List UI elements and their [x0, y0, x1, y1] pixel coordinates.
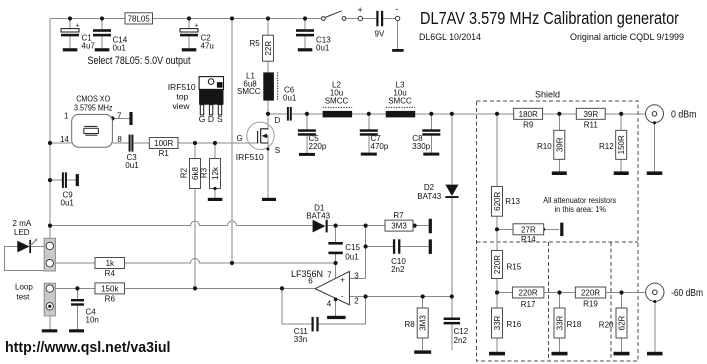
wire: [101, 19, 103, 49]
wire: [335, 300, 337, 316]
wire: [349, 226, 365, 279]
IRF510 package top view: [168, 77, 224, 124]
svg-text:IRF510: IRF510: [236, 152, 264, 162]
wire: [5, 247, 45, 271]
ground: [182, 48, 197, 51]
svg-text:S: S: [217, 114, 223, 124]
ground: [614, 352, 630, 356]
svg-text:DL7AV 3.579 MHz Calibration ge: DL7AV 3.579 MHz Calibration generator: [420, 8, 679, 28]
ground: [327, 316, 346, 319]
resistor R18: [554, 308, 582, 338]
svg-text:180R: 180R: [519, 110, 538, 119]
wire: [497, 292, 645, 294]
connector K2 (Loop test): [15, 283, 55, 316]
svg-text:DL6GL 10/2014: DL6GL 10/2014: [419, 32, 481, 42]
capacitor C12: [444, 318, 469, 345]
capacitor C8: [412, 129, 440, 151]
svg-text:3M3: 3M3: [419, 315, 428, 331]
svg-text:-60 dBm: -60 dBm: [671, 288, 703, 299]
wire: [430, 114, 432, 153]
svg-text:+: +: [76, 22, 80, 29]
junction dot: [364, 244, 368, 248]
wire: [267, 114, 269, 198]
svg-text:Original article CQDL 9/1999: Original article CQDL 9/1999: [570, 32, 684, 42]
capacitor C1 (electrolytic): [61, 22, 95, 50]
resistor R12: [599, 130, 627, 159]
svg-text:100R: 100R: [154, 139, 173, 148]
svg-text:2n2: 2n2: [454, 336, 468, 345]
svg-text:470p: 470p: [371, 142, 389, 151]
wire: [497, 228, 559, 230]
wire: [422, 297, 424, 351]
junction dot: [450, 112, 454, 116]
wire: [267, 19, 269, 114]
resistor R7: [385, 220, 413, 231]
transistor Q1 IRF510: [236, 116, 281, 162]
resistor R2: [190, 159, 201, 189]
junction dot: [48, 141, 52, 145]
resistor R13: [492, 187, 521, 217]
junction dot: [280, 286, 284, 290]
svg-text:R16: R16: [507, 320, 522, 329]
svg-text:D: D: [208, 114, 214, 124]
capacitor C13: [296, 29, 331, 52]
battery 9V: [358, 4, 400, 38]
shield enclosure (dashed): [477, 90, 638, 362]
wire: [451, 114, 453, 351]
capacitor C10: [391, 239, 406, 274]
ground: [361, 153, 377, 156]
wire: [349, 296, 451, 298]
svg-text:R17: R17: [521, 300, 536, 309]
svg-text:R10: R10: [537, 142, 552, 151]
inductor L2: [323, 81, 353, 118]
svg-text:R2: R2: [180, 167, 189, 178]
svg-text:-: -: [395, 4, 398, 14]
wire: [49, 310, 51, 329]
svg-text:220R: 220R: [581, 289, 600, 298]
svg-text:IRF510: IRF510: [168, 82, 196, 92]
svg-text:39R: 39R: [583, 110, 598, 119]
svg-text:LF356N: LF356N: [291, 269, 323, 279]
svg-text:Loop: Loop: [15, 283, 33, 292]
capacitor C7: [360, 129, 389, 151]
ground: [262, 198, 276, 201]
wire: [50, 142, 72, 144]
resistor R17: [512, 287, 544, 309]
wire: [620, 114, 622, 172]
svg-text:2 mA: 2 mA: [13, 219, 32, 228]
LED D3 2mA: [13, 219, 38, 253]
svg-text:R5: R5: [250, 39, 261, 48]
resistor R3: [210, 159, 221, 189]
wire: [368, 114, 370, 153]
wire: [654, 123, 656, 171]
wire: [383, 18, 395, 20]
wire: [397, 21, 399, 49]
resistor R11: [576, 108, 605, 129]
svg-text:R15: R15: [507, 263, 522, 272]
wire: [55, 259, 335, 264]
svg-text:R4: R4: [105, 269, 116, 278]
svg-text:R14: R14: [521, 235, 536, 244]
junction dot: [230, 16, 234, 20]
ground: [298, 48, 313, 51]
ground: [614, 171, 629, 175]
svg-text:BAT43: BAT43: [306, 212, 330, 221]
svg-text:62R: 62R: [618, 315, 627, 330]
svg-text:22R: 22R: [264, 41, 273, 56]
svg-text:78L05: 78L05: [128, 14, 151, 23]
svg-text:R3: R3: [200, 167, 209, 178]
capacitor C11: [294, 317, 319, 344]
wire: [31, 246, 44, 248]
wire: [49, 19, 51, 239]
junction dot: [75, 286, 79, 290]
svg-text:R19: R19: [583, 300, 598, 309]
svg-text:test: test: [17, 293, 31, 302]
junction dot: [619, 290, 623, 294]
svg-text:620R: 620R: [493, 192, 502, 211]
wire: [231, 19, 233, 264]
terminal stub (C9 feedthrough): [76, 174, 79, 186]
svg-text:12k: 12k: [211, 166, 220, 180]
ground: [414, 350, 431, 353]
junction dot: [305, 112, 309, 116]
wire: [335, 263, 337, 279]
junction dot: [495, 112, 499, 116]
junction dot: [429, 112, 433, 116]
oscillator X1 CMOS XO: [60, 95, 122, 148]
wire: [69, 19, 71, 49]
ground: [552, 171, 567, 175]
junction dot: [367, 112, 371, 116]
svg-text:3M3: 3M3: [391, 222, 407, 231]
wire: [304, 19, 306, 49]
wire: [558, 114, 560, 172]
resistor R6: [95, 283, 125, 304]
svg-text:1k: 1k: [106, 259, 115, 268]
svg-text:R11: R11: [584, 121, 599, 130]
resistor R8: [405, 308, 429, 338]
terminal stub (R14 feedthrough): [560, 223, 563, 237]
svg-text:33n: 33n: [294, 335, 307, 344]
svg-text:Select 78L05: 5.0V output: Select 78L05: 5.0V output: [88, 55, 191, 67]
resistor R4: [95, 258, 125, 279]
svg-text:39R: 39R: [555, 137, 564, 152]
svg-text:7: 7: [327, 271, 332, 280]
resistor R5: [250, 35, 274, 61]
capacitor C2 (electrolytic): [180, 22, 214, 50]
svg-text:SMCC: SMCC: [237, 87, 261, 96]
ground: [69, 329, 84, 332]
svg-text:D: D: [275, 116, 281, 125]
junction dot: [541, 227, 545, 231]
svg-text:150R: 150R: [617, 135, 626, 154]
junction dot: [230, 261, 234, 265]
resistor R9: [514, 108, 543, 129]
wire: [194, 143, 196, 288]
svg-text:D2: D2: [424, 183, 435, 192]
svg-text:C12: C12: [454, 327, 469, 336]
svg-text:+: +: [358, 5, 363, 15]
junction dot: [334, 224, 338, 228]
svg-text:S: S: [275, 146, 280, 155]
junction dot: [364, 294, 368, 298]
svg-text:SMCC: SMCC: [325, 97, 349, 106]
svg-text:0 dBm: 0 dBm: [671, 110, 697, 121]
svg-text:220p: 220p: [309, 142, 327, 151]
svg-text:330p: 330p: [412, 142, 430, 151]
svg-text:in this area: 1%: in this area: 1%: [555, 205, 607, 214]
junction dot: [364, 224, 368, 228]
svg-text:All attenuator resistors: All attenuator resistors: [543, 196, 616, 205]
junction dot: [266, 16, 270, 20]
ground: [423, 153, 439, 156]
wire: [214, 143, 216, 198]
junction dot: [334, 261, 338, 265]
connector J2 output -60 dBm: [646, 283, 703, 303]
ground: [489, 352, 505, 356]
wire: [76, 288, 78, 329]
svg-text:R1: R1: [159, 149, 170, 158]
wire: [112, 118, 129, 120]
resistor R15: [492, 251, 522, 279]
junction dot: [450, 294, 454, 298]
junction dot: [193, 141, 197, 145]
svg-text:10n: 10n: [86, 316, 99, 325]
svg-text:G: G: [199, 114, 206, 124]
svg-text:7: 7: [117, 111, 122, 120]
svg-text:R12: R12: [599, 142, 614, 151]
svg-text:CMOS XO: CMOS XO: [76, 95, 110, 104]
junction dot: [495, 227, 499, 231]
svg-text:0u1: 0u1: [345, 253, 359, 262]
svg-text:4: 4: [327, 300, 332, 309]
wire: [50, 18, 321, 20]
svg-text:0u1: 0u1: [113, 44, 127, 53]
svg-text:150k: 150k: [101, 284, 119, 293]
wire: [366, 246, 429, 248]
svg-text:0u1: 0u1: [61, 199, 75, 208]
svg-text:1: 1: [64, 112, 69, 121]
wire: [55, 287, 315, 289]
capacitor C9: [61, 172, 75, 207]
svg-text:R20: R20: [599, 320, 614, 329]
wire: [654, 303, 656, 352]
junction dot: [68, 16, 72, 20]
junction dot: [213, 187, 216, 190]
diode D1 BAT43: [306, 204, 330, 233]
capacitor C4: [71, 299, 99, 325]
junction dot: [193, 286, 197, 290]
ground: [63, 48, 78, 51]
svg-text:3.5795 MHz: 3.5795 MHz: [74, 104, 113, 113]
wire: [335, 226, 337, 263]
wire: [363, 18, 377, 20]
wire: [112, 142, 257, 144]
svg-text:220R: 220R: [493, 255, 502, 274]
ground: [647, 171, 663, 175]
terminal stub (C10 feedthrough): [429, 239, 432, 254]
inductor L3: [386, 81, 416, 118]
svg-text:2n2: 2n2: [391, 265, 405, 274]
ground: [647, 352, 663, 356]
svg-text:Shield: Shield: [535, 90, 560, 100]
wire: [621, 293, 623, 352]
capacitor C3: [125, 135, 139, 170]
svg-text:33R: 33R: [493, 315, 502, 330]
diode D2 BAT43: [417, 183, 458, 201]
resistor R14: [513, 224, 544, 244]
svg-text:33R: 33R: [556, 315, 565, 330]
op-amp U1 LF356N: [291, 269, 359, 309]
wire: [50, 179, 76, 181]
svg-text:0u1: 0u1: [125, 161, 139, 170]
resistor R1: [149, 138, 178, 159]
capacitor C5: [298, 129, 327, 151]
capacitor C15: [328, 242, 360, 262]
junction dot: [213, 141, 217, 145]
wire: [328, 225, 429, 227]
capacitor C14: [93, 29, 128, 52]
svg-text:27R: 27R: [521, 225, 536, 234]
wire: [268, 113, 645, 115]
junction dot: [557, 112, 561, 116]
svg-text:R13: R13: [505, 197, 520, 206]
connector J1 output 0 dBm: [646, 105, 697, 125]
svg-text:-: -: [341, 292, 344, 301]
wire: [188, 19, 190, 49]
junction dot: [557, 290, 561, 294]
wire: [496, 114, 498, 352]
junction dot: [187, 16, 191, 20]
svg-text:http://www.qsl.net/va3iul: http://www.qsl.net/va3iul: [5, 340, 171, 356]
switch S1: [321, 11, 346, 21]
junction dot: [421, 294, 425, 298]
ground: [552, 352, 568, 356]
ground: [392, 49, 404, 52]
wire: [559, 293, 561, 352]
svg-text:view: view: [173, 101, 191, 111]
ground: [299, 153, 315, 156]
wire: [346, 18, 358, 20]
svg-text:top: top: [177, 92, 189, 102]
junction dot: [619, 112, 623, 116]
ground: [42, 329, 58, 332]
wire: [50, 221, 313, 226]
svg-text:4u7: 4u7: [82, 42, 96, 51]
capacitor C6: [283, 86, 297, 121]
svg-text:R7: R7: [393, 211, 404, 220]
svg-text:0u1: 0u1: [283, 94, 297, 103]
junction dot: [110, 116, 114, 120]
svg-text:R6: R6: [105, 295, 116, 304]
svg-text:R18: R18: [567, 320, 582, 329]
svg-text:R8: R8: [405, 320, 416, 329]
svg-text:8: 8: [117, 135, 122, 144]
junction dot: [495, 290, 499, 294]
svg-text:LED: LED: [14, 228, 30, 237]
svg-text:R9: R9: [523, 121, 534, 130]
junction dot: [413, 224, 417, 228]
svg-text:SMCC: SMCC: [388, 97, 412, 106]
svg-text:0u1: 0u1: [316, 44, 330, 53]
svg-text:G: G: [237, 134, 243, 143]
junction dot: [100, 16, 104, 20]
svg-text:9V: 9V: [375, 30, 385, 39]
resistor R20: [599, 308, 627, 338]
junction dot: [303, 16, 307, 20]
terminal stub (pin 7 feedthrough): [129, 112, 132, 125]
svg-text:220R: 220R: [519, 289, 538, 298]
wire: [306, 114, 308, 153]
ground: [95, 48, 110, 51]
svg-text:14: 14: [60, 135, 69, 144]
svg-text:+: +: [340, 276, 345, 285]
inductor L1: [237, 72, 278, 101]
svg-text:47u: 47u: [201, 42, 214, 51]
resistor R16: [492, 308, 522, 338]
ground: [208, 198, 223, 201]
svg-text:C15: C15: [345, 243, 360, 252]
junction dot: [48, 224, 52, 228]
svg-text:BAT43: BAT43: [417, 192, 441, 201]
regulator 78L05: [125, 13, 153, 24]
junction dot: [48, 178, 52, 182]
svg-text:3: 3: [354, 272, 359, 281]
terminal stub (R7 feedthrough): [429, 219, 432, 234]
resistor R10: [537, 130, 565, 159]
svg-text:2: 2: [354, 296, 359, 305]
connector K1 (LED): [44, 238, 55, 271]
svg-text:D: D: [218, 83, 222, 89]
wire: [282, 288, 366, 324]
svg-text:+: +: [195, 22, 199, 29]
resistor R19: [575, 287, 605, 309]
junction dot: [266, 112, 270, 116]
